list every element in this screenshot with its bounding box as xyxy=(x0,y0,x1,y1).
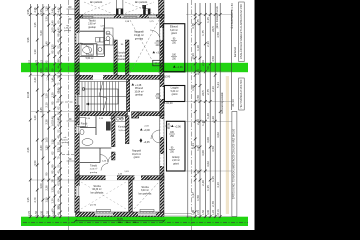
svg-text:+0,05: +0,05 xyxy=(144,141,151,144)
svg-text:1,50: 1,50 xyxy=(45,93,49,99)
door arcs lower hall xyxy=(100,130,160,171)
svg-text:greslap: greslap xyxy=(64,29,72,32)
svg-text:1,36 m²: 1,36 m² xyxy=(64,27,71,30)
svg-text:Szoba: Szoba xyxy=(93,184,101,188)
svg-text:1,50: 1,50 xyxy=(202,210,205,215)
level mark +2,96 below dining box xyxy=(173,65,183,69)
interior wall below stairs left xyxy=(76,112,128,116)
room label Etkezo xyxy=(170,24,178,36)
left dimension numbers xyxy=(26,6,60,216)
svg-text:5,21: 5,21 xyxy=(191,143,195,149)
extension lines left xyxy=(31,15,75,217)
svg-text:+0,00: +0,00 xyxy=(144,129,151,132)
svg-text:gránit: gránit xyxy=(134,156,140,159)
dining balcony box (Etkezo) xyxy=(163,24,185,72)
extension lines right xyxy=(186,15,232,217)
left dimension chain lines xyxy=(30,4,60,218)
bottom exterior wall xyxy=(76,212,165,217)
window label 90/250 dining xyxy=(171,39,177,45)
svg-text:2,26: 2,26 xyxy=(45,185,49,191)
svg-text:1,20: 1,20 xyxy=(51,92,55,98)
svg-text:1,05: 1,05 xyxy=(51,27,55,33)
svg-text:3,00: 3,00 xyxy=(206,137,210,143)
svg-text:150/240: 150/240 xyxy=(162,77,171,79)
svg-text:greslap: greslap xyxy=(90,171,98,174)
svg-text:3,96: 3,96 xyxy=(26,37,30,43)
svg-text:greslap: greslap xyxy=(135,94,143,97)
svg-text:20,5: 20,5 xyxy=(211,26,215,32)
svg-text:1,50: 1,50 xyxy=(196,95,200,101)
svg-text:lám parkoló: lám parkoló xyxy=(90,1,103,4)
svg-text:4,50: 4,50 xyxy=(216,32,220,38)
svg-text:Tároló: Tároló xyxy=(88,18,96,22)
svg-text:1,30: 1,30 xyxy=(45,6,49,12)
svg-text:tervezett légvezeték: tervezett légvezeték xyxy=(221,92,224,114)
dashed leader y102 xyxy=(56,101,74,103)
svg-text:gránit: gránit xyxy=(173,162,179,165)
svg-text:1,20: 1,20 xyxy=(45,67,49,73)
svg-text:2,36: 2,36 xyxy=(33,7,37,13)
svg-text:1,35: 1,35 xyxy=(51,44,55,50)
kitchen counter lower xyxy=(115,116,125,122)
bedroom diagonal dashes lower right xyxy=(134,183,158,209)
svg-text:4,50: 4,50 xyxy=(52,211,55,216)
svg-text:2,36: 2,36 xyxy=(26,147,30,153)
svg-text:+2,96: +2,96 xyxy=(175,126,182,129)
room label Tarolo lower xyxy=(90,165,98,174)
svg-text:Nappali: Nappali xyxy=(132,149,141,153)
svg-text:Fürdő: Fürdő xyxy=(81,123,88,126)
svg-text:1,35: 1,35 xyxy=(39,9,43,15)
svg-text:4,45: 4,45 xyxy=(56,7,60,13)
room label Loggia xyxy=(171,86,179,97)
svg-text:1,27: 1,27 xyxy=(191,192,195,198)
svg-text:2,36: 2,36 xyxy=(196,69,200,75)
svg-text:3,96: 3,96 xyxy=(56,177,60,183)
toilet lower xyxy=(80,129,84,135)
svg-text:gránit: gránit xyxy=(172,93,178,96)
svg-text:Fürdő: Fürdő xyxy=(86,53,93,57)
svg-text:3,02: 3,02 xyxy=(206,161,210,167)
svg-text:3,96: 3,96 xyxy=(26,9,30,15)
room label Szoba small xyxy=(139,185,152,196)
svg-text:90/150: 90/150 xyxy=(154,63,162,65)
living room diagonal dashes upper xyxy=(130,20,159,73)
svg-text:greslap: greslap xyxy=(62,141,70,144)
bottom dimension 9,05 xyxy=(74,220,165,222)
svg-text:+2,96: +2,96 xyxy=(176,66,183,69)
svg-text:1,20: 1,20 xyxy=(46,211,49,216)
svg-text:3,02: 3,02 xyxy=(216,132,220,138)
svg-text:5,60 m²: 5,60 m² xyxy=(86,57,94,60)
svg-text:3,00: 3,00 xyxy=(39,183,43,189)
right dimension numbers xyxy=(191,17,235,207)
svg-text:1,50: 1,50 xyxy=(196,195,200,201)
svg-text:3,00: 3,00 xyxy=(41,211,44,216)
svg-text:1,50: 1,50 xyxy=(35,211,38,216)
bathroom walls lower xyxy=(80,116,112,163)
bathtub upper xyxy=(81,45,94,56)
svg-text:lam.parketta: lam.parketta xyxy=(91,191,104,194)
porch door jambs 2 xyxy=(144,9,151,15)
svg-text:1,05: 1,05 xyxy=(45,137,49,143)
svg-text:1,50: 1,50 xyxy=(39,68,43,74)
parking bay dashed crosses xyxy=(84,2,154,14)
room label Nappali lower xyxy=(132,149,141,160)
svg-text:2,40: 2,40 xyxy=(56,87,60,93)
svg-text:8,40 m²: 8,40 m² xyxy=(141,189,149,192)
svg-text:50: 50 xyxy=(206,66,210,70)
level mark 0,00 at loggia xyxy=(163,101,173,105)
svg-text:2,70: 2,70 xyxy=(28,211,31,216)
svg-text:2,40: 2,40 xyxy=(51,8,55,14)
svg-text:2,40: 2,40 xyxy=(39,145,43,151)
svg-text:1,04 m²: 1,04 m² xyxy=(61,139,68,142)
stair break line xyxy=(99,82,107,112)
svg-text:1,98: 1,98 xyxy=(192,210,195,215)
left exterior wall xyxy=(75,0,79,213)
svg-text:4,50: 4,50 xyxy=(211,56,215,62)
svg-text:10,64 m²: 10,64 m² xyxy=(134,90,143,93)
small dims near top-left of building xyxy=(69,6,72,161)
svg-text:±0,00: ±0,00 xyxy=(166,102,173,105)
room label Szoba big xyxy=(91,184,104,195)
room label Erkely xyxy=(172,155,180,166)
title box lower right xyxy=(232,112,237,217)
svg-text:5,20: 5,20 xyxy=(56,117,60,123)
small label block outside left wall xyxy=(64,25,72,32)
dashed leader y154 xyxy=(62,153,75,155)
svg-text:2,05 m²: 2,05 m² xyxy=(90,168,98,171)
balcony box (Erkely) xyxy=(167,121,186,171)
room label Konyha upper xyxy=(117,51,126,62)
svg-text:2,40: 2,40 xyxy=(201,180,205,186)
loggia box xyxy=(164,86,184,102)
svg-text:2,10: 2,10 xyxy=(45,102,49,108)
numbers above bottom green bar xyxy=(28,211,55,216)
door gap in wall above stairs xyxy=(93,75,103,80)
porch door jambs 1 xyxy=(116,0,123,15)
small marks on bottom green right xyxy=(118,222,136,223)
green highlighter bar bottom xyxy=(21,217,248,226)
svg-text:1,75: 1,75 xyxy=(201,30,205,36)
level mark 0,00 lower hall xyxy=(140,128,150,132)
svg-text:5,20 m²: 5,20 m² xyxy=(171,90,179,93)
svg-text:5,05 m²: 5,05 m² xyxy=(119,129,127,132)
svg-text:1,20: 1,20 xyxy=(211,116,215,122)
paper background xyxy=(0,0,255,230)
interior wall above stairs xyxy=(76,75,165,79)
toilet upper xyxy=(97,45,104,54)
svg-text:20,5: 20,5 xyxy=(201,90,205,96)
room label Piheno xyxy=(134,86,143,97)
svg-text:2,75: 2,75 xyxy=(196,19,200,25)
shower lower xyxy=(77,118,86,127)
svg-text:3,00: 3,00 xyxy=(207,210,210,215)
kitchen-bath wall lower xyxy=(112,116,116,147)
room label Tarolo upper xyxy=(88,18,96,29)
svg-text:greslap: greslap xyxy=(118,58,126,61)
column block below stairs xyxy=(132,112,139,119)
svg-text:1,35: 1,35 xyxy=(196,145,200,151)
svg-text:3,00: 3,00 xyxy=(201,150,205,156)
radiators under windows xyxy=(81,17,154,212)
svg-text:2,40: 2,40 xyxy=(51,20,55,26)
svg-text:21,13: 21,13 xyxy=(231,99,235,107)
svg-text:Erkély: Erkély xyxy=(172,155,180,159)
green highlighter bar middle xyxy=(21,63,248,72)
kitchen wall upper left xyxy=(114,40,117,75)
svg-text:1,40: 1,40 xyxy=(206,113,210,119)
stair right wall xyxy=(127,79,130,111)
svg-text:gránit: gránit xyxy=(171,32,177,35)
svg-text:2,03: 2,03 xyxy=(201,60,205,66)
svg-text:1,50: 1,50 xyxy=(51,139,55,145)
kitchen wall lower xyxy=(125,116,129,144)
entry door arc left xyxy=(80,43,91,54)
dashed site line left xyxy=(68,0,70,230)
title box upper right xyxy=(239,2,245,62)
svg-text:Nappali: Nappali xyxy=(134,29,144,33)
washing machine block xyxy=(106,122,111,131)
right dimension chain lines xyxy=(195,3,231,218)
svg-text:Loggia: Loggia xyxy=(171,86,179,90)
storage room walls upper xyxy=(80,18,105,40)
svg-text:9,05: 9,05 xyxy=(117,217,123,221)
dashed property line bottom xyxy=(23,221,248,223)
kitchen wall upper right xyxy=(125,40,129,75)
interior wall between bedrooms xyxy=(129,180,133,212)
svg-text:4,16: 4,16 xyxy=(216,182,220,188)
svg-text:1,48: 1,48 xyxy=(201,120,205,126)
svg-text:1,20: 1,20 xyxy=(212,210,215,215)
porch column right xyxy=(159,0,165,18)
bedroom diagonal dashes lower left xyxy=(81,182,126,209)
room label Nappali upper xyxy=(134,29,144,40)
room label Furdo upper xyxy=(86,53,94,60)
svg-text:bontandó: bontandó xyxy=(234,46,237,57)
svg-text:19,24 m²: 19,24 m² xyxy=(132,153,141,156)
window label 90/250 balcony xyxy=(169,148,175,154)
svg-text:6,20 m²: 6,20 m² xyxy=(170,29,178,32)
svg-text:2,36: 2,36 xyxy=(206,41,210,47)
svg-text:27,13: 27,13 xyxy=(217,209,220,216)
numbers around middle green bar xyxy=(28,60,55,81)
bathtub oval lower xyxy=(82,139,93,146)
svg-text:Tároló: Tároló xyxy=(90,165,98,168)
window label small xyxy=(165,124,171,130)
level mark +1,48 stairs xyxy=(132,83,142,87)
top exterior wall xyxy=(76,15,165,19)
svg-text:1,50: 1,50 xyxy=(45,197,49,203)
interior dimension texts xyxy=(86,21,155,206)
svg-text:2,70: 2,70 xyxy=(197,210,200,215)
bold slab edge under dining box xyxy=(163,71,185,73)
svg-text:CSALÁDI HÁZ EMELETI ALAPRAJZA: CSALÁDI HÁZ EMELETI ALAPRAJZA M 1:50 xyxy=(239,4,243,59)
interior wall below stairs right xyxy=(139,112,164,116)
svg-text:piros: bontandó szerk.: piros: bontandó szerk. xyxy=(216,5,219,28)
svg-text:20,30 m²: 20,30 m² xyxy=(92,188,101,191)
stair walk line with arrow xyxy=(82,88,118,106)
svg-text:4,45: 4,45 xyxy=(39,107,43,113)
svg-text:4,45: 4,45 xyxy=(56,27,60,33)
svg-text:+1,48: +1,48 xyxy=(135,84,142,87)
window openings top wall xyxy=(83,15,156,18)
svg-text:Konyha: Konyha xyxy=(118,126,127,129)
black scan border right xyxy=(255,0,360,230)
leader marks left of building xyxy=(67,9,75,161)
svg-text:1,35: 1,35 xyxy=(51,187,55,193)
svg-text:Szoba: Szoba xyxy=(141,185,149,189)
kitchen counter upper xyxy=(104,28,114,45)
svg-text:5,20 m²: 5,20 m² xyxy=(118,55,126,58)
svg-text:5,20: 5,20 xyxy=(39,30,43,36)
window label 150/240 right wall xyxy=(155,41,161,47)
svg-text:1,35: 1,35 xyxy=(211,176,215,182)
svg-text:1,35: 1,35 xyxy=(33,22,37,28)
level mark +3,00 kitchen xyxy=(153,51,163,55)
window label 180/250 dining xyxy=(171,55,177,61)
step lines right of bottom wall xyxy=(164,214,191,217)
door openings right wall xyxy=(160,28,164,166)
title box middle right xyxy=(239,78,245,110)
svg-text:1,35: 1,35 xyxy=(45,145,49,151)
svg-text:2,40: 2,40 xyxy=(45,41,49,47)
svg-text:1,10: 1,10 xyxy=(196,45,200,51)
svg-text:2,70: 2,70 xyxy=(33,197,37,203)
small window box left of dining xyxy=(153,60,164,66)
svg-text:2,36: 2,36 xyxy=(45,119,49,125)
svg-text:1,30: 1,30 xyxy=(45,16,49,22)
svg-text:2,70: 2,70 xyxy=(211,201,215,207)
bathroom walls upper xyxy=(80,40,105,57)
svg-text:3,50: 3,50 xyxy=(211,146,215,152)
svg-text:1,50: 1,50 xyxy=(56,204,60,210)
svg-text:1,96: 1,96 xyxy=(191,85,195,91)
svg-text:1,15: 1,15 xyxy=(206,17,210,23)
svg-text:ÉPÍTÉSI ENG. TERVDOKUMENTÁCIÓ: ÉPÍTÉSI ENG. TERVDOKUMENTÁCIÓ CSALÁDI HÁ… xyxy=(233,128,236,199)
svg-text:2,60 m²: 2,60 m² xyxy=(88,23,96,26)
svg-text:pm 90: pm 90 xyxy=(90,204,97,206)
svg-text:greslap: greslap xyxy=(88,26,96,29)
svg-text:greslap: greslap xyxy=(135,37,144,40)
right exterior wall xyxy=(160,15,164,213)
numbers above bottom green right chains xyxy=(192,209,220,216)
door gap in bedroom wall 2 xyxy=(135,175,142,180)
door arcs upper hall xyxy=(106,30,160,41)
svg-text:3,75: 3,75 xyxy=(191,23,195,29)
level mark +2,96 balcony xyxy=(171,125,181,129)
svg-text:2,40: 2,40 xyxy=(33,77,37,83)
small label block outside left wall lower xyxy=(61,137,69,144)
svg-text:1,30: 1,30 xyxy=(33,49,37,55)
chimney block xyxy=(142,5,146,9)
svg-text:2,75: 2,75 xyxy=(206,89,210,95)
door gap in bedroom wall 1 xyxy=(106,175,118,180)
svg-text:2,40: 2,40 xyxy=(196,119,200,125)
svg-text:13,36: 13,36 xyxy=(26,91,30,98)
svg-text:Konyha: Konyha xyxy=(117,51,126,55)
svg-text:2,20 m²: 2,20 m² xyxy=(172,159,180,162)
dashed site line right xyxy=(190,0,192,230)
svg-text:90: 90 xyxy=(196,170,200,174)
window openings bottom wall xyxy=(95,212,156,215)
room label Konyha lower xyxy=(118,126,127,132)
svg-text:1,20: 1,20 xyxy=(33,115,37,121)
right dimension tick marks xyxy=(194,13,222,218)
extra dimension line x187.8 xyxy=(187,3,189,218)
left dimension chain tick marks xyxy=(29,7,62,218)
beige highlighter strip right xyxy=(226,76,229,214)
window openings left wall xyxy=(76,33,80,196)
svg-text:1,35: 1,35 xyxy=(206,185,210,191)
svg-text:5,21: 5,21 xyxy=(216,82,220,88)
svg-text:4,65 m²: 4,65 m² xyxy=(80,126,88,129)
svg-text:1,35: 1,35 xyxy=(26,197,30,203)
window label 180/250 balcony xyxy=(169,132,175,138)
washbasin counter upper xyxy=(96,38,105,43)
room label Furdo lower xyxy=(80,123,88,129)
svg-text:2,36: 2,36 xyxy=(211,86,215,92)
svg-text:2,40: 2,40 xyxy=(51,116,55,122)
svg-text:2,96: 2,96 xyxy=(191,53,195,59)
door axis cross +0,05 xyxy=(140,138,151,144)
interior wall above bedrooms xyxy=(76,176,165,180)
staircase xyxy=(78,82,127,112)
svg-text:lám parkoló: lám parkoló xyxy=(135,1,148,4)
window label 200/150 loggia xyxy=(155,94,161,100)
kitchen-bath wall lower stub xyxy=(112,152,116,160)
svg-text:+3,00: +3,00 xyxy=(156,52,163,55)
svg-text:1,20: 1,20 xyxy=(51,198,55,204)
svg-text:É-1 ALAPRAJZ M=1:50: É-1 ALAPRAJZ M=1:50 xyxy=(231,3,234,29)
svg-text:1,20: 1,20 xyxy=(56,147,60,153)
svg-text:lam.parketta: lam.parketta xyxy=(139,192,152,195)
svg-text:HELYSZÍNRAJZ M=1:500: HELYSZÍNRAJZ M=1:500 xyxy=(240,79,243,108)
svg-text:3,50: 3,50 xyxy=(33,160,37,166)
